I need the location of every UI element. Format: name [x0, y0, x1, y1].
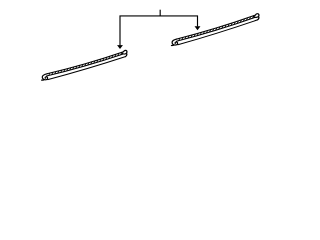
arrowhead to left molding [117, 45, 123, 49]
callout bracket [120, 16, 198, 46]
left (driver side) molding strip [42, 50, 127, 80]
arrowhead to right molding [195, 26, 201, 30]
label 1 (tick above bracket) [160, 10, 161, 16]
right (passenger side) molding strip [171, 14, 260, 46]
